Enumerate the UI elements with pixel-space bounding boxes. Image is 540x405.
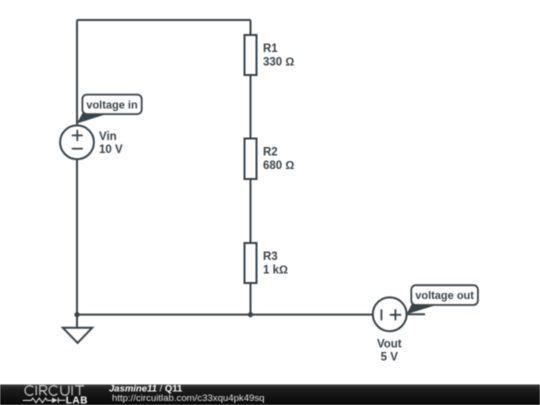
svg-text:1 kΩ: 1 kΩ <box>263 265 288 277</box>
annotation bubble "voltage in" <box>77 95 142 124</box>
svg-text:R1: R1 <box>263 43 278 55</box>
voltage source V2 Vout <box>373 297 407 331</box>
voltage source V1 Vin <box>60 125 94 159</box>
svg-text:10 V: 10 V <box>99 144 123 156</box>
wire: top horizontal from Vin to R1 branch <box>77 19 251 21</box>
wire: stub right of Vout <box>407 313 425 315</box>
footer URL <box>112 393 265 404</box>
svg-text:R3: R3 <box>263 251 278 263</box>
svg-text:voltage out: voltage out <box>415 290 474 302</box>
annotation bubble "voltage out" <box>407 285 478 314</box>
label R2 680 ohm <box>263 147 294 173</box>
CircuitLab logo resistor-diode squiggle <box>23 398 66 404</box>
CircuitLab logo wordmark LAB <box>66 395 88 405</box>
junction node at Vin/ground <box>74 312 79 317</box>
CircuitLab logo wordmark CIRCUIT <box>25 386 84 396</box>
resistor R1 <box>245 35 257 75</box>
footer text author/title <box>109 384 183 395</box>
wire: bottom horizontal from ground node to Vout <box>77 314 373 316</box>
wire: between R2 and R3 <box>250 179 252 243</box>
wire: right vertical from top wire to R1 <box>250 20 252 35</box>
wire: left vertical from Vin bottom to bottom node <box>76 159 78 314</box>
label R1 330 ohm <box>263 43 294 69</box>
wire: left vertical from top wire to Vin top <box>76 20 78 126</box>
svg-text:LAB: LAB <box>66 395 88 405</box>
resistor R3 <box>245 243 257 283</box>
svg-text:5 V: 5 V <box>381 352 399 364</box>
ground symbol <box>63 315 92 343</box>
resistor R2 <box>245 139 257 180</box>
footer bar <box>0 385 540 405</box>
label Vout 5 V <box>377 339 402 364</box>
junction node at R3 bottom <box>248 312 253 317</box>
wire: from R3 to bottom node <box>250 283 252 315</box>
svg-text:http://circuitlab.com/c33xqu4p: http://circuitlab.com/c33xqu4pk49sq <box>112 393 265 404</box>
label Vin 10 V <box>99 131 123 156</box>
svg-text:voltage in: voltage in <box>86 99 138 111</box>
svg-text:330 Ω: 330 Ω <box>263 57 294 69</box>
svg-text:R2: R2 <box>263 147 278 159</box>
label R3 1 kohm <box>263 251 288 277</box>
svg-text:680 Ω: 680 Ω <box>263 160 294 172</box>
wire: between R1 and R2 <box>250 75 252 139</box>
svg-text:Vout: Vout <box>377 339 402 351</box>
svg-text:Vin: Vin <box>99 131 117 143</box>
